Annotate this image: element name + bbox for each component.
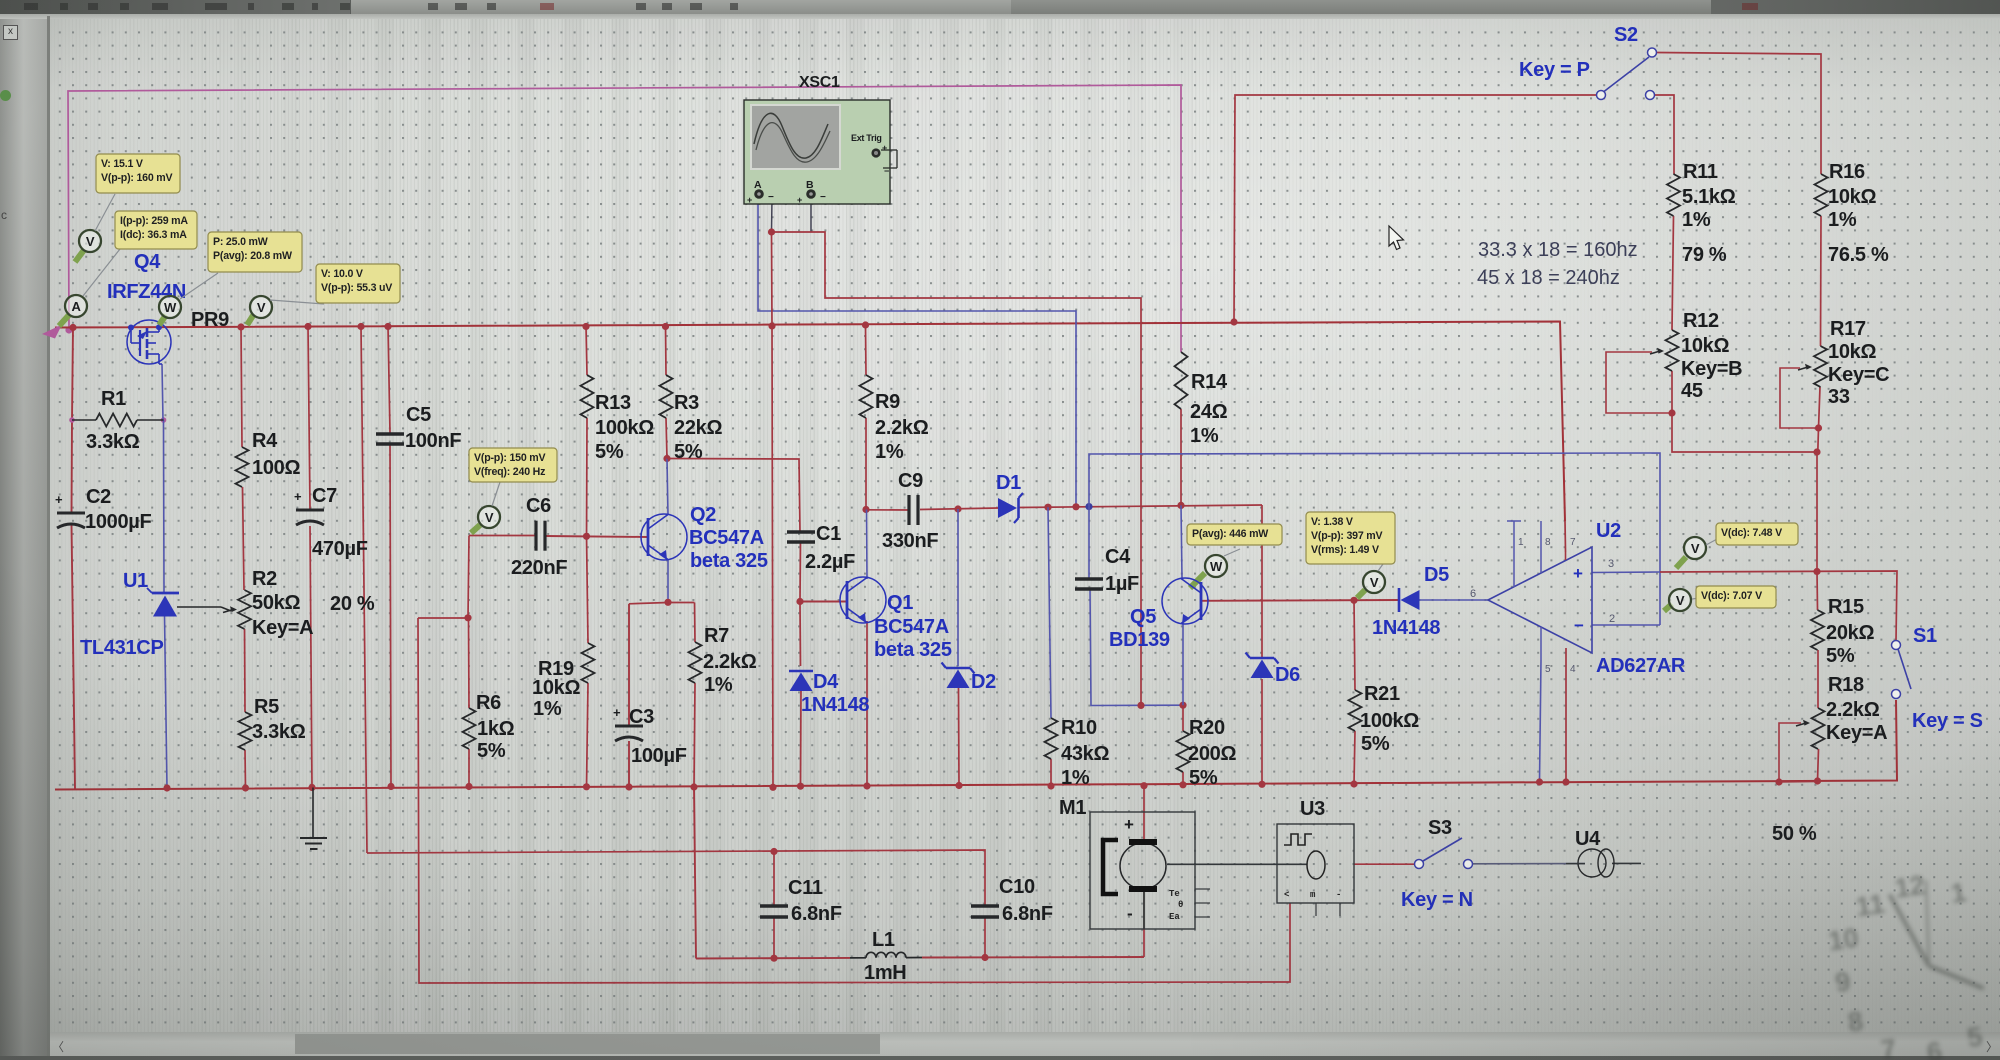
svg-text:1: 1 xyxy=(1518,537,1524,548)
node: junction bus/snubber branch xyxy=(357,323,364,330)
svg-text:V(dc): 7.48 V: V(dc): 7.48 V xyxy=(1721,527,1782,539)
node: C3 at bottom bus xyxy=(625,783,632,790)
wire: Q1 emitter lead xyxy=(866,621,868,786)
wire: R13 bottom to junction xyxy=(586,418,589,536)
wire: U3 return line xyxy=(418,618,1290,983)
tachometer U3 xyxy=(1277,824,1354,916)
capacitor C6 (horizontal) xyxy=(534,521,537,551)
node: R10 at bottom bus xyxy=(1047,782,1054,789)
svg-text:U1: U1 xyxy=(123,570,148,592)
node: R18 at bottom bus xyxy=(1814,777,1821,784)
node: Q1 emitter at bottom bus xyxy=(863,782,870,789)
svg-text:12: 12 xyxy=(1893,870,1927,904)
wire: R12 wiper link xyxy=(1606,352,1672,413)
svg-text:beta 325: beta 325 xyxy=(874,639,952,661)
node: junction motor node/Q5 emitter/R20 xyxy=(1179,702,1186,709)
wire: C6 input line from probe node to Q2 base xyxy=(469,535,537,537)
svg-text:2.2kΩ: 2.2kΩ xyxy=(875,417,929,439)
svg-text:+: + xyxy=(613,705,621,720)
wire: C3 top lead xyxy=(628,604,630,725)
node: D4 at bottom bus xyxy=(797,783,804,790)
resistor R9 xyxy=(860,375,873,418)
svg-text:1%: 1% xyxy=(1190,425,1219,447)
svg-text:R10: R10 xyxy=(1061,717,1097,739)
node: R18 wiper at bottom bus xyxy=(1775,778,1782,785)
svg-text:100Ω: 100Ω xyxy=(252,457,300,479)
resistor R4 xyxy=(236,447,249,487)
wire: R9 bottom lead xyxy=(865,418,867,510)
wire: R20 top lead xyxy=(1182,705,1184,731)
wire: D2 top lead xyxy=(957,509,959,666)
wire: main top bus xyxy=(55,322,1565,522)
diode D4 xyxy=(789,670,813,673)
resistor R21 xyxy=(1349,690,1362,731)
node: R20 at bottom bus xyxy=(1179,781,1186,788)
svg-text:S3: S3 xyxy=(1428,817,1452,839)
svg-text:3: 3 xyxy=(1608,558,1614,570)
mouse cursor xyxy=(1389,226,1404,250)
wire: U3 to S3 xyxy=(1354,863,1414,865)
wire: R6 bottom lead xyxy=(468,749,470,787)
capacitor C7 (polarized) xyxy=(296,509,324,512)
svg-text:W: W xyxy=(164,300,177,315)
svg-text:6: 6 xyxy=(1925,1036,1944,1060)
svg-text:5.1kΩ: 5.1kΩ xyxy=(1682,186,1736,208)
svg-text:W: W xyxy=(1210,559,1223,574)
node: junction R12 bottom xyxy=(1668,409,1675,416)
wire: R7 bottom lead xyxy=(694,683,695,787)
motor M1 xyxy=(1090,812,1210,929)
svg-text:-: - xyxy=(1127,904,1132,923)
capacitor C10 xyxy=(971,904,999,907)
svg-text:6: 6 xyxy=(1470,588,1476,600)
svg-text:V(p-p): 397 mV: V(p-p): 397 mV xyxy=(1311,530,1383,542)
transistor Q2 xyxy=(641,514,687,560)
svg-text:V: 1.38 V: V: 1.38 V xyxy=(1311,516,1353,528)
wire: R17 wiper link xyxy=(1780,368,1819,428)
svg-text:43kΩ: 43kΩ xyxy=(1061,743,1109,765)
svg-text:1%: 1% xyxy=(704,674,733,696)
capacitor C11 xyxy=(760,904,788,907)
node: junction D1 line/R10 xyxy=(1044,504,1051,511)
svg-text:TL431CP: TL431CP xyxy=(80,637,164,659)
svg-text:D1: D1 xyxy=(996,472,1021,494)
svg-text:C2: C2 xyxy=(86,486,111,508)
node: junction main bus / S2 feed xyxy=(1230,318,1237,325)
probe readout box Vdc 7.07V xyxy=(1696,586,1776,608)
svg-text:1%: 1% xyxy=(1828,209,1857,231)
svg-text:R21: R21 xyxy=(1364,683,1400,705)
node: junction snubber rail/C11 xyxy=(770,848,777,855)
probe V at C6 input xyxy=(471,525,480,533)
wire: oscilloscope A- / bus tap xyxy=(771,198,774,232)
wire: C5 branch xyxy=(388,327,390,434)
wire: S2 lower throw to R11 xyxy=(1655,95,1674,174)
wire: C7 branch xyxy=(308,327,310,510)
node: R1 left pin xyxy=(69,417,75,423)
svg-text:AD627AR: AD627AR xyxy=(1596,655,1686,677)
svg-text:R4: R4 xyxy=(252,430,278,452)
svg-text:1%: 1% xyxy=(875,441,904,463)
svg-text:8: 8 xyxy=(1545,537,1551,548)
potentiometer R12 xyxy=(1666,330,1679,371)
svg-text:5%: 5% xyxy=(1189,767,1218,789)
svg-text:2: 2 xyxy=(1609,613,1615,625)
node: junction scope tap/main bus xyxy=(768,322,775,329)
wire: S3 to U4 xyxy=(1473,863,1585,865)
wire: D4 bottom lead xyxy=(800,688,803,786)
op-amp U2 AD627AR xyxy=(1470,521,1615,675)
svg-text:R12: R12 xyxy=(1683,310,1719,332)
switch S1 xyxy=(1892,641,1912,699)
svg-text:V: V xyxy=(257,300,266,315)
svg-text:R7: R7 xyxy=(704,625,729,647)
wire: snubber rail to C11/C10 tops xyxy=(367,850,985,906)
svg-text:5: 5 xyxy=(1545,664,1551,675)
svg-text:D4: D4 xyxy=(813,671,839,693)
potentiometer R2 xyxy=(238,590,251,629)
svg-text:79 %: 79 % xyxy=(1682,244,1727,266)
svg-text:R5: R5 xyxy=(254,696,279,718)
svg-text:A: A xyxy=(754,179,762,191)
wire: Q5 emitter lead xyxy=(1182,623,1184,705)
svg-text:470µF: 470µF xyxy=(312,538,368,560)
wire: R11 to R12 xyxy=(1672,216,1674,330)
probe readout box Vdc 7.48V xyxy=(1716,523,1798,545)
wire: R6 top tie line xyxy=(418,617,468,619)
svg-text:Q2: Q2 xyxy=(690,504,716,526)
resistor R15 xyxy=(1811,610,1824,650)
node: C5 at bottom bus xyxy=(387,783,394,790)
wire: Q5 collector lead xyxy=(1181,505,1182,578)
svg-text:10kΩ: 10kΩ xyxy=(532,677,580,699)
svg-text:+: + xyxy=(1573,564,1583,583)
svg-text:5%: 5% xyxy=(595,441,624,463)
svg-text:<: < xyxy=(1284,890,1289,900)
svg-text:V: V xyxy=(1370,575,1379,590)
svg-text:−: − xyxy=(820,192,826,203)
svg-text:U4: U4 xyxy=(1575,828,1601,850)
wire: R16 to R17 xyxy=(1820,216,1823,346)
node: D2 at bottom bus xyxy=(955,782,962,789)
node: U1 branch at bottom bus xyxy=(163,784,170,791)
svg-text:Key=A: Key=A xyxy=(1826,722,1887,744)
wire: U1 to R2 wiper xyxy=(177,606,221,608)
svg-text:Key = N: Key = N xyxy=(1401,889,1473,911)
transistor Q5 (mirrored) xyxy=(1162,578,1208,624)
svg-text:R14: R14 xyxy=(1191,371,1228,393)
probe readout box V:15.1V xyxy=(96,154,180,193)
svg-text:BC547A: BC547A xyxy=(689,527,764,549)
svg-text:R3: R3 xyxy=(674,392,699,414)
wire: D6 bottom lead xyxy=(1261,679,1263,784)
svg-text:20kΩ: 20kΩ xyxy=(1826,622,1874,644)
node: junction bus/R9 xyxy=(862,321,869,328)
resistor R19 xyxy=(582,643,595,683)
svg-text:6.8nF: 6.8nF xyxy=(791,903,842,925)
svg-text:R6: R6 xyxy=(476,692,501,714)
svg-text:50kΩ: 50kΩ xyxy=(252,592,300,614)
node: junction C6/R13/R19/Q2 base xyxy=(583,533,590,540)
node: R5 at bottom bus xyxy=(242,784,249,791)
svg-text:1%: 1% xyxy=(533,698,562,720)
wire: U2 pin 2 stub xyxy=(1592,624,1660,626)
transducer U4 xyxy=(1566,849,1614,877)
svg-text:1kΩ: 1kΩ xyxy=(477,718,515,740)
resistor R3 xyxy=(660,375,673,418)
svg-text:V: V xyxy=(86,234,95,249)
resistor R16 xyxy=(1815,174,1828,216)
svg-text:2.2µF: 2.2µF xyxy=(805,551,855,573)
probe readout box Vpp 150mV xyxy=(469,448,557,482)
node: scope tap at bottom bus xyxy=(769,784,776,791)
node: junction R9/C9/Q1 collector xyxy=(862,506,869,513)
node: R7 at bottom bus xyxy=(690,783,697,790)
svg-text:V: V xyxy=(1691,541,1700,556)
svg-text:S2: S2 xyxy=(1614,24,1638,46)
wire: R18 bottom lead xyxy=(1818,749,1819,781)
node: magenta junction on main bus xyxy=(65,326,72,333)
svg-text:Te: Te xyxy=(1169,889,1180,899)
node: junction bus/C5 xyxy=(384,323,391,330)
svg-text:1%: 1% xyxy=(1061,767,1090,789)
wire: C1 feed line xyxy=(667,459,800,533)
node: R6 at bottom bus xyxy=(465,783,472,790)
wire: oscilloscope channel A to D1 node xyxy=(758,198,1076,507)
transistor Q1 xyxy=(840,577,886,623)
svg-text:V(dc): 7.07 V: V(dc): 7.07 V xyxy=(1701,590,1762,602)
svg-text:R15: R15 xyxy=(1828,596,1864,618)
wire: Q1 base line xyxy=(800,601,847,603)
mosfet Q4 xyxy=(127,320,171,364)
svg-text:S1: S1 xyxy=(1913,625,1937,647)
node: junction R3/Q2 collector/C1 feed xyxy=(663,455,670,462)
wire: D2 bottom lead xyxy=(958,688,961,786)
node: junction R17 bottom xyxy=(1815,424,1822,431)
svg-text:BD139: BD139 xyxy=(1109,629,1170,651)
wire: R3 bottom lead xyxy=(666,418,667,459)
capacitor C3 (polarized) xyxy=(615,725,643,728)
svg-text:1µF: 1µF xyxy=(1105,573,1139,595)
svg-text:+: + xyxy=(294,489,302,504)
wire: C2/R1 left branch xyxy=(72,328,73,421)
wire: Q2 emitter lead xyxy=(667,559,669,602)
wire: R21 top lead xyxy=(1354,600,1355,690)
svg-text:+: + xyxy=(747,195,752,205)
wire: U4 right stub xyxy=(1612,862,1641,864)
node: junction C9 line/D2 xyxy=(954,505,961,512)
switch S3 xyxy=(1415,838,1473,869)
diode D5 xyxy=(1399,588,1420,612)
svg-text:R16: R16 xyxy=(1829,161,1865,183)
svg-text:Q5: Q5 xyxy=(1130,606,1156,628)
svg-text:100nF: 100nF xyxy=(405,430,461,452)
ground symbol xyxy=(300,788,327,850)
node: junction R17 link xyxy=(1813,448,1820,455)
wire: D6 branch from D1 line xyxy=(1261,505,1263,657)
clock reflection xyxy=(1820,864,1993,1060)
node: junction C1/Q1 base/D4 xyxy=(796,598,803,605)
wire: C3 bottom lead xyxy=(628,741,630,787)
potentiometer R17 xyxy=(1814,346,1827,387)
svg-text:24Ω: 24Ω xyxy=(1190,401,1228,423)
wire: R21 bottom lead xyxy=(1354,731,1355,784)
wire: C11 bottom lead xyxy=(773,917,775,958)
svg-text:L1: L1 xyxy=(872,929,895,951)
svg-text:5%: 5% xyxy=(1361,733,1390,755)
svg-text:1%: 1% xyxy=(1682,209,1711,231)
node: U2 pin4 at bottom bus xyxy=(1562,778,1569,785)
probe readout box I(p-p) xyxy=(115,211,197,249)
svg-text:R11: R11 xyxy=(1683,161,1718,183)
wire: C1 bottom lead xyxy=(799,541,802,602)
svg-text:V: V xyxy=(485,510,494,525)
svg-text:I(dc): 36.3 mA: I(dc): 36.3 mA xyxy=(120,229,187,241)
wire: R17 bottom lead xyxy=(1819,387,1821,428)
wire: R9 top lead from bus xyxy=(865,325,868,375)
svg-text:I(p-p): 259 mA: I(p-p): 259 mA xyxy=(120,215,188,227)
wire: U2 pin 5 to bottom bus xyxy=(1540,660,1542,782)
wire: C9 right lead to D1 xyxy=(920,508,998,510)
svg-text:D6: D6 xyxy=(1275,664,1300,686)
svg-text:C11: C11 xyxy=(788,877,823,899)
svg-text:V(p-p): 55.3 uV: V(p-p): 55.3 uV xyxy=(321,282,392,294)
inductor L1 xyxy=(866,952,906,957)
diode D1 (zener, horizontal) xyxy=(998,493,1023,523)
probe V on input xyxy=(75,250,84,262)
svg-text:Q4: Q4 xyxy=(134,251,161,273)
wire: R15 to R18 xyxy=(1817,650,1819,708)
wire: U2 pin 4 to bottom bus xyxy=(1565,648,1567,782)
svg-text:45: 45 xyxy=(1681,380,1703,402)
wire: emitter node rail xyxy=(629,603,695,604)
resistor R7 xyxy=(689,642,702,683)
svg-text:Key=C: Key=C xyxy=(1828,364,1889,386)
svg-text:10: 10 xyxy=(1826,923,1860,957)
wire: Q2 collector lead xyxy=(667,459,668,516)
svg-text:P(avg): 446 mW: P(avg): 446 mW xyxy=(1192,528,1268,540)
svg-text:33: 33 xyxy=(1828,386,1850,408)
node: junction pin3 line/R15 chain xyxy=(1813,568,1820,575)
resistor R5 xyxy=(239,712,252,750)
wire: R3 top lead from bus xyxy=(665,327,668,376)
node: junction bus/C7 xyxy=(304,323,311,330)
probe V at D5 xyxy=(1357,590,1365,598)
svg-text:3.3kΩ: 3.3kΩ xyxy=(86,431,140,453)
switch S2 xyxy=(1597,48,1657,100)
svg-text:200Ω: 200Ω xyxy=(1188,743,1236,765)
svg-text:5%: 5% xyxy=(477,740,506,762)
svg-text:7: 7 xyxy=(1879,1033,1898,1060)
probe W on Q4 xyxy=(159,315,166,325)
svg-text:Key=A: Key=A xyxy=(252,617,313,639)
node: junction bus/left branch xyxy=(69,324,76,331)
wire: C11 top lead xyxy=(773,852,775,907)
svg-text:m: m xyxy=(1310,890,1316,900)
svg-text:−: − xyxy=(768,192,774,203)
svg-text:100kΩ: 100kΩ xyxy=(595,417,654,439)
svg-text:C9: C9 xyxy=(898,470,923,492)
wire: M1 minus lead down to L1 rail xyxy=(1143,892,1145,929)
svg-text:V(p-p): 160 mV: V(p-p): 160 mV xyxy=(101,172,173,184)
node: page connector arrow at left end of bus xyxy=(42,325,62,339)
node: U2 pin5 at bottom bus xyxy=(1536,778,1543,785)
wire: U2 pin 3 line to S1 xyxy=(1592,571,1660,574)
wire: C10 bottom lead xyxy=(984,917,986,958)
svg-text:U2: U2 xyxy=(1596,520,1621,542)
wire: R19 top lead from junction xyxy=(587,536,589,643)
wire: R14 bottom lead to D1 line xyxy=(1180,409,1182,505)
oscilloscope XSC1 instrument icon xyxy=(744,100,897,205)
node: C7 at bottom bus xyxy=(308,784,315,791)
wire: R15 top lead xyxy=(1816,572,1819,611)
wire: R19 bottom lead xyxy=(587,683,589,787)
svg-text:PR9: PR9 xyxy=(191,309,229,331)
node: junction L1 rail/C11 xyxy=(770,955,777,962)
svg-text:1N4148: 1N4148 xyxy=(1372,617,1440,639)
svg-text:10kΩ: 10kΩ xyxy=(1828,186,1876,208)
resistor R10 xyxy=(1045,718,1058,759)
svg-text:V(freq): 240 Hz: V(freq): 240 Hz xyxy=(474,466,545,478)
svg-text:Key=B: Key=B xyxy=(1681,358,1742,380)
svg-text:D5: D5 xyxy=(1424,564,1449,586)
wire: R10 bottom lead xyxy=(1050,759,1052,786)
wire: R20 bottom lead xyxy=(1182,772,1184,785)
node: junction Q5 base line/R21 xyxy=(1350,597,1357,604)
svg-text:Ea: Ea xyxy=(1169,912,1180,922)
wire: C4 bottom lead to motor node xyxy=(1090,588,1183,706)
resistor R1 (horizontal) xyxy=(72,414,164,427)
node: R19 at bottom bus xyxy=(583,783,590,790)
svg-text:R2: R2 xyxy=(252,568,277,590)
svg-text:+: + xyxy=(882,143,887,153)
svg-text:R20: R20 xyxy=(1189,717,1225,739)
wire: R12/R17 bottoms to pin3 node xyxy=(1672,413,1817,572)
wire: S2 upper throw to R16 xyxy=(1657,53,1821,175)
svg-text:6.8nF: 6.8nF xyxy=(1002,903,1053,925)
resistor R6 xyxy=(463,708,476,749)
svg-text:D2: D2 xyxy=(971,671,996,693)
wire: magenta net from main bus up across top to R14 xyxy=(68,85,1181,352)
capacitor C5 xyxy=(376,432,404,435)
svg-text:220nF: 220nF xyxy=(511,557,567,579)
svg-text:R17: R17 xyxy=(1830,318,1866,340)
svg-text:C5: C5 xyxy=(406,404,431,426)
wire: R13 top lead from bus xyxy=(586,327,587,376)
svg-text:1000µF: 1000µF xyxy=(85,511,152,533)
svg-text:θ: θ xyxy=(1178,900,1183,910)
svg-text:45 x 18 = 240hz: 45 x 18 = 240hz xyxy=(1477,267,1620,289)
wire: oscilloscope channel B to motor node xyxy=(810,198,812,232)
svg-text:C3: C3 xyxy=(629,706,654,728)
wire: M1 plus lead from bottom bus xyxy=(1143,786,1145,839)
node: R1 right pin xyxy=(161,417,167,423)
svg-text:beta 325: beta 325 xyxy=(690,550,768,572)
probe V at U2 pin3 xyxy=(1676,557,1686,568)
node: junction L1 rail/C10 xyxy=(981,954,988,961)
svg-text:U3: U3 xyxy=(1300,798,1325,820)
svg-text:22kΩ: 22kΩ xyxy=(674,417,722,439)
svg-text:+: + xyxy=(55,492,63,507)
node: junction D1 line/scope A xyxy=(1072,503,1079,510)
wire: D4 top lead xyxy=(799,602,802,667)
capacitor C1 xyxy=(787,530,815,533)
probe W on Q5 xyxy=(1190,573,1205,588)
node: junction bus/R3 xyxy=(662,323,669,330)
svg-text:Key = S: Key = S xyxy=(1912,710,1983,732)
diode D6 (zener) xyxy=(1250,657,1274,660)
wire: motor shaft link M1-U3 xyxy=(1167,863,1307,865)
